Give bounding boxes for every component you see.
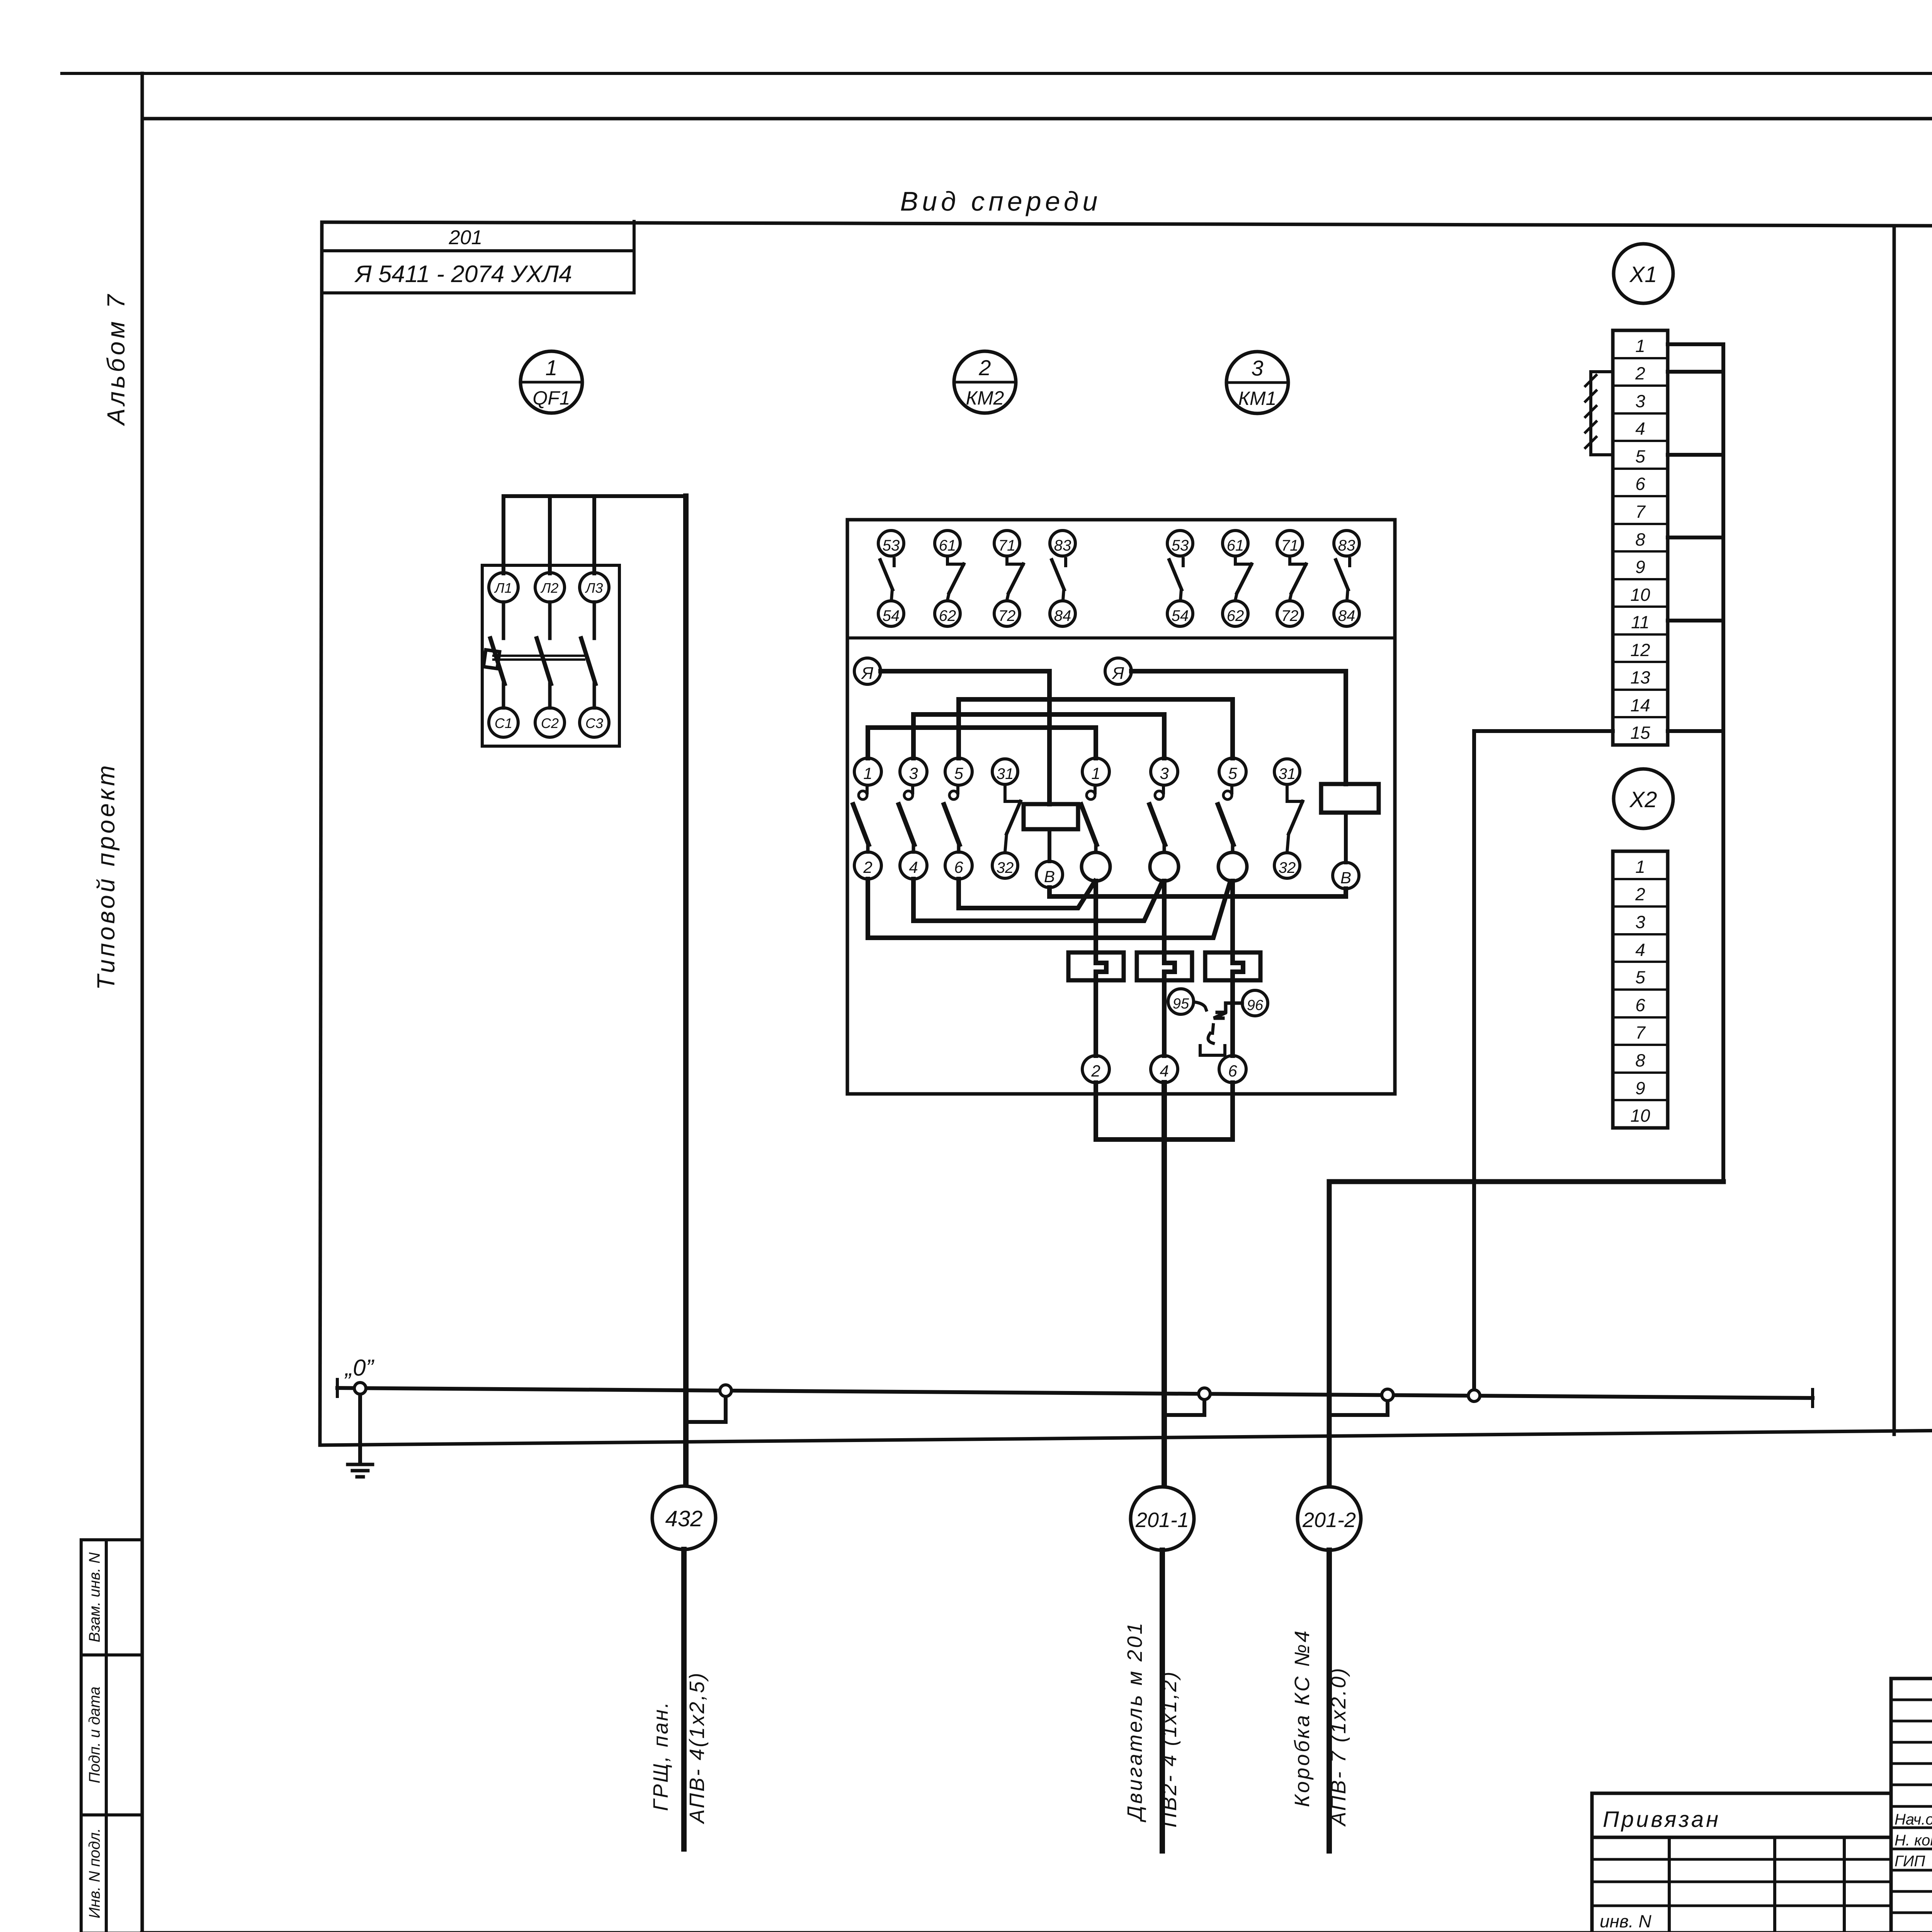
cable wire 432 vertical xyxy=(683,496,689,1486)
svg-text:7: 7 xyxy=(1635,502,1646,522)
svg-text:61: 61 xyxy=(1227,537,1244,554)
signature table xyxy=(1889,1679,1893,1932)
svg-text:Л2: Л2 xyxy=(541,580,559,596)
terminal C1 xyxy=(489,708,518,737)
svg-text:В: В xyxy=(1340,869,1351,887)
margin stamp box Inv N podl xyxy=(81,1815,142,1932)
svg-text:31: 31 xyxy=(997,765,1014,782)
X2 row line xyxy=(1613,878,1668,880)
svg-text:КМ1: КМ1 xyxy=(1238,388,1277,409)
X1 jumper bracket rows 2-5 (to dismantle) xyxy=(1591,372,1613,455)
marker circle X1 xyxy=(1614,244,1673,303)
coil terminal B KM1 xyxy=(1333,862,1359,889)
svg-text:6: 6 xyxy=(1635,474,1645,494)
svg-text:АПВ- 4(1х2,5): АПВ- 4(1х2,5) xyxy=(685,1671,709,1824)
KM2 output terminal 2 xyxy=(854,852,881,879)
aux contact 61-62 xyxy=(1223,531,1252,626)
pole fixed contact hook xyxy=(911,785,914,793)
jumper hatch tick xyxy=(1585,391,1596,401)
binding table row xyxy=(1592,1905,1891,1907)
pole terminal 5 xyxy=(1219,758,1246,785)
svg-text:Я: Я xyxy=(1112,664,1124,683)
svg-text:62: 62 xyxy=(1227,607,1244,624)
svg-text:12: 12 xyxy=(1630,640,1650,660)
svg-text:Н. контр.: Н. контр. xyxy=(1895,1832,1932,1849)
svg-text:Вид спереди: Вид спереди xyxy=(900,186,1102,216)
svg-text:2: 2 xyxy=(978,355,991,380)
svg-text:3: 3 xyxy=(909,764,918,782)
pole terminal 3 xyxy=(900,758,927,785)
cable circle 201-2 xyxy=(1298,1487,1361,1550)
X1 row line xyxy=(1613,468,1668,470)
X2 row line xyxy=(1613,1044,1668,1046)
pole terminal 1 xyxy=(1082,758,1109,785)
marker circle 1 QF1 xyxy=(520,351,582,413)
svg-text:1: 1 xyxy=(545,355,557,380)
binding table row xyxy=(1592,1858,1891,1861)
svg-text:201-2: 201-2 xyxy=(1302,1509,1356,1532)
svg-text:ГИП: ГИП xyxy=(1895,1853,1925,1870)
wire phase feed horizontal xyxy=(503,494,686,498)
X1 row line xyxy=(1613,633,1668,636)
X1 stub row15 xyxy=(1668,729,1723,733)
svg-text:Двигатель м 201: Двигатель м 201 xyxy=(1123,1621,1146,1823)
zero bus xyxy=(337,1388,1813,1398)
svg-text:8: 8 xyxy=(1635,529,1645,549)
wire Ya KM1 to coil xyxy=(1131,671,1346,784)
thermal contact 95 xyxy=(1168,989,1194,1014)
pole fixed contact hook xyxy=(1162,785,1165,793)
svg-text:72: 72 xyxy=(1281,607,1299,624)
X1 stub row11 xyxy=(1668,619,1723,622)
marker circle 3 KM1 xyxy=(1226,352,1288,413)
pole terminal 3 xyxy=(1151,758,1178,785)
svg-text:432: 432 xyxy=(665,1506,703,1531)
svg-text:84: 84 xyxy=(1338,607,1355,624)
svg-text:10: 10 xyxy=(1630,1105,1650,1126)
svg-text:62: 62 xyxy=(939,607,956,624)
cable circle 432 xyxy=(652,1486,716,1549)
bus node X1-15 xyxy=(1468,1390,1480,1401)
svg-text:3: 3 xyxy=(1635,391,1645,411)
output terminal 2 xyxy=(1082,1056,1109,1083)
marker circle 2 KM2 xyxy=(954,351,1016,413)
svg-text:13: 13 xyxy=(1630,667,1650,687)
svg-text:„0”: „0” xyxy=(344,1355,374,1381)
svg-text:QF1: QF1 xyxy=(532,387,570,409)
svg-text:3: 3 xyxy=(1251,356,1263,380)
X1 row line xyxy=(1613,550,1668,553)
svg-text:С3: С3 xyxy=(585,715,603,731)
svg-text:15: 15 xyxy=(1630,723,1650,743)
coil box KM1 xyxy=(1321,784,1379,813)
breaker handle xyxy=(483,650,500,669)
jumper hatch tick xyxy=(1585,406,1596,417)
aux contact 83-84 xyxy=(1050,531,1075,626)
wire to L3 xyxy=(592,496,596,573)
KM1 junction node 3 xyxy=(1218,852,1247,881)
sheet top edge xyxy=(62,72,1932,75)
X2 row line xyxy=(1613,1016,1668,1019)
svg-text:71: 71 xyxy=(1281,537,1299,554)
panel enclosure box xyxy=(322,222,1932,227)
svg-text:83: 83 xyxy=(1338,537,1355,554)
svg-text:96: 96 xyxy=(1247,997,1264,1014)
svg-text:КМ2: КМ2 xyxy=(966,387,1004,409)
svg-text:3: 3 xyxy=(1160,764,1168,782)
X2 row line xyxy=(1613,988,1668,991)
X1 row line xyxy=(1613,440,1668,442)
cable wire 201-1 vertical xyxy=(1162,1083,1167,1486)
KM2 output terminal 6 xyxy=(945,852,972,879)
cable 432 wire down xyxy=(681,1549,687,1849)
svg-text:Альбом 7: Альбом 7 xyxy=(102,291,130,426)
svg-text:Инв. N подл.: Инв. N подл. xyxy=(86,1828,103,1918)
pole fixed contact hook xyxy=(866,785,869,793)
svg-text:Взам. инв. N: Взам. инв. N xyxy=(86,1552,103,1642)
svg-text:2: 2 xyxy=(863,858,872,876)
binding table row xyxy=(1592,1881,1891,1883)
marker circle X2 xyxy=(1614,769,1673,828)
svg-text:X2: X2 xyxy=(1629,787,1657,812)
svg-text:83: 83 xyxy=(1054,537,1071,554)
svg-text:X1: X1 xyxy=(1629,262,1657,287)
pole terminal 5 xyxy=(945,758,972,785)
svg-text:11: 11 xyxy=(1631,612,1650,632)
wire tie terminals 2-6 xyxy=(1096,1083,1233,1139)
frame border xyxy=(141,73,144,1932)
svg-text:Я: Я xyxy=(861,664,874,683)
svg-text:Типовой проект: Типовой проект xyxy=(92,763,120,990)
aux contact 53-54 xyxy=(1167,531,1193,626)
terminal strip X2 xyxy=(1613,851,1668,1128)
thermal trip contact symbol xyxy=(1194,1002,1206,1010)
margin stamp box Vzam inv N xyxy=(81,1540,142,1655)
coil box KM2 xyxy=(1024,804,1078,829)
aux contact 83-84 xyxy=(1334,531,1359,626)
wire through thermal element xyxy=(1164,881,1175,1056)
svg-text:Л3: Л3 xyxy=(585,580,603,596)
jumper hatch tick xyxy=(1585,437,1596,448)
cable circle 201-1 xyxy=(1131,1487,1194,1550)
wire through thermal element xyxy=(1096,881,1106,1056)
X1 stub row5 xyxy=(1668,453,1723,457)
panel designation box 201 xyxy=(633,221,636,293)
wire X1-15 to zero bus xyxy=(1474,731,1613,1390)
coil terminal B KM2 xyxy=(1036,861,1063,888)
pole moving blade xyxy=(1150,804,1165,845)
X1 row line xyxy=(1613,384,1668,387)
wire bus poles 1-1 xyxy=(868,728,1096,758)
svg-text:Я 5411 - 2074 УХЛ4: Я 5411 - 2074 УХЛ4 xyxy=(354,261,572,287)
X1 harness trunk xyxy=(1668,344,1723,1182)
svg-text:54: 54 xyxy=(1172,607,1189,624)
binding table column xyxy=(1843,1837,1846,1932)
jumper hatch tick xyxy=(1585,375,1596,386)
X1 row line xyxy=(1613,412,1668,415)
svg-text:5: 5 xyxy=(954,764,963,782)
thermal element xyxy=(1205,952,1260,980)
pole moving blade xyxy=(944,804,959,845)
breaker trip bar xyxy=(493,655,584,657)
svg-text:С1: С1 xyxy=(495,715,512,731)
svg-text:1: 1 xyxy=(1635,857,1645,877)
svg-text:14: 14 xyxy=(1630,695,1650,715)
output terminal 4 xyxy=(1151,1056,1178,1083)
aux contact 31-32 xyxy=(992,759,1018,784)
svg-text:95: 95 xyxy=(1173,996,1189,1012)
svg-text:32: 32 xyxy=(1279,859,1296,876)
svg-text:10: 10 xyxy=(1630,585,1650,605)
jumper hatch tick xyxy=(1585,422,1596,432)
aux contact 71-72 xyxy=(1277,531,1306,626)
svg-text:31: 31 xyxy=(1279,765,1296,782)
svg-text:1: 1 xyxy=(1091,764,1100,782)
aux contact 71-72 xyxy=(994,531,1023,626)
wire to L2 xyxy=(548,496,552,573)
svg-text:201-1: 201-1 xyxy=(1135,1509,1189,1532)
X1 row line xyxy=(1613,523,1668,525)
terminal C3 xyxy=(580,708,609,737)
wire KM2-2 to KM1 node3 xyxy=(868,879,1230,938)
KM1 junction node 1 xyxy=(1082,852,1110,881)
binding table Privyazan xyxy=(1592,1793,1891,1932)
bus node ground xyxy=(354,1383,366,1394)
contactor box divider xyxy=(847,636,1395,639)
svg-text:6: 6 xyxy=(1228,1062,1237,1080)
output terminal 6 xyxy=(1219,1056,1246,1083)
wire to L1 xyxy=(502,496,505,573)
pole moving blade xyxy=(853,804,869,845)
circuit breaker QF1 box xyxy=(482,565,619,746)
svg-text:53: 53 xyxy=(883,537,900,554)
bus node 201-1 with jog xyxy=(1164,1394,1204,1415)
X1 stub row8 xyxy=(1668,536,1723,539)
aux contact 31-32 xyxy=(1274,759,1300,784)
binding table column xyxy=(1668,1837,1671,1932)
pole fixed contact hook xyxy=(1094,785,1097,793)
X1 row line xyxy=(1613,716,1668,718)
svg-text:Привязан: Привязан xyxy=(1603,1807,1721,1832)
pole moving blade xyxy=(1218,804,1233,845)
X1 stub row2 xyxy=(1668,370,1723,374)
ground symbol xyxy=(348,1463,372,1466)
svg-text:72: 72 xyxy=(998,607,1016,624)
pole moving blade xyxy=(1081,804,1097,845)
svg-text:Нач.отд.: Нач.отд. xyxy=(1895,1811,1932,1828)
wire through thermal element xyxy=(1233,881,1243,1056)
terminal L2 xyxy=(535,573,565,602)
svg-text:54: 54 xyxy=(883,607,900,624)
ground wire xyxy=(358,1388,362,1463)
svg-text:201: 201 xyxy=(449,226,483,249)
contactor block box xyxy=(847,520,1395,1094)
bus left end tick xyxy=(336,1379,339,1396)
svg-text:84: 84 xyxy=(1054,607,1071,624)
terminal L1 xyxy=(489,573,518,602)
margin stamp box Podp i data xyxy=(81,1655,142,1815)
wire Ya KM2 to coil xyxy=(881,671,1049,804)
KM2 blade stubs xyxy=(866,845,870,852)
wire KM2-4 to KM1 node2 xyxy=(913,879,1162,921)
svg-text:8: 8 xyxy=(1635,1050,1645,1070)
breaker pole contact xyxy=(502,602,505,638)
svg-text:ПВ2- 4 (1х1,2): ПВ2- 4 (1х1,2) xyxy=(1158,1670,1181,1827)
svg-text:4: 4 xyxy=(1160,1062,1168,1080)
binding table column xyxy=(1773,1837,1776,1932)
X2 row line xyxy=(1613,961,1668,963)
coil terminal Ya KM2 xyxy=(854,658,881,684)
svg-text:4: 4 xyxy=(1635,418,1645,439)
svg-text:61: 61 xyxy=(939,537,956,554)
X2 row line xyxy=(1613,1099,1668,1101)
pole terminal 1 xyxy=(854,758,881,785)
cable 201-2 wire down xyxy=(1327,1550,1332,1851)
terminal C2 xyxy=(535,708,565,737)
svg-text:Подп. и дата: Подп. и дата xyxy=(86,1687,103,1783)
svg-text:1: 1 xyxy=(863,764,872,782)
X2 row line xyxy=(1613,933,1668,935)
svg-text:Коробка КС №4: Коробка КС №4 xyxy=(1291,1629,1314,1807)
svg-text:6: 6 xyxy=(954,858,963,876)
thermal element xyxy=(1068,952,1124,980)
wire B-B common xyxy=(1049,888,1346,896)
svg-text:С2: С2 xyxy=(541,715,559,731)
svg-text:В: В xyxy=(1044,867,1055,886)
svg-text:6: 6 xyxy=(1635,995,1645,1015)
svg-text:4: 4 xyxy=(1635,940,1645,960)
X1 row line xyxy=(1613,605,1668,608)
bus node 201-2 with jog xyxy=(1329,1395,1388,1415)
svg-text:5: 5 xyxy=(1635,967,1645,987)
KM2 output terminal 4 xyxy=(900,852,927,879)
coil terminal Ya KM1 xyxy=(1105,658,1131,684)
X1 row line xyxy=(1613,689,1668,691)
terminal L3 xyxy=(580,573,609,602)
thermal contact 96 xyxy=(1242,990,1268,1016)
svg-text:ГРЩ, пан.: ГРЩ, пан. xyxy=(649,1701,672,1811)
thermal element xyxy=(1137,952,1192,980)
svg-text:2: 2 xyxy=(1091,1062,1100,1080)
svg-text:5: 5 xyxy=(1228,764,1237,782)
bus node 432 with jog xyxy=(686,1391,726,1422)
wire KM2-6 to KM1 node1 xyxy=(959,879,1095,908)
svg-text:АПВ- 7 (1х2.0): АПВ- 7 (1х2.0) xyxy=(1327,1667,1350,1827)
bus right end tick xyxy=(1811,1389,1814,1406)
svg-text:71: 71 xyxy=(998,537,1016,554)
cable 201-1 wire down xyxy=(1160,1550,1165,1851)
pole moving blade xyxy=(899,804,914,845)
KM1 junction node 2 xyxy=(1150,852,1179,881)
wire bus poles 3-3 xyxy=(913,714,1164,758)
panel divider between front view and door xyxy=(1893,228,1896,1434)
cable wire 201-2 vertical xyxy=(1329,1182,1723,1486)
breaker pole contact xyxy=(593,602,596,638)
breaker pole contact xyxy=(548,602,552,638)
svg-text:3: 3 xyxy=(1635,912,1645,932)
pole fixed contact hook xyxy=(956,785,959,793)
X2 row line xyxy=(1613,1071,1668,1074)
wire bus poles 5-5 xyxy=(959,699,1233,758)
svg-text:5: 5 xyxy=(1635,446,1645,466)
svg-text:53: 53 xyxy=(1172,537,1189,554)
terminal strip X1 xyxy=(1613,330,1668,745)
aux contact 61-62 xyxy=(935,531,964,626)
X2 row line xyxy=(1613,905,1668,908)
svg-text:9: 9 xyxy=(1635,1078,1645,1098)
svg-text:инв. N: инв. N xyxy=(1600,1911,1651,1931)
X1 row line xyxy=(1613,357,1668,359)
svg-text:9: 9 xyxy=(1635,557,1645,577)
X1 row line xyxy=(1613,661,1668,663)
svg-text:32: 32 xyxy=(997,859,1014,876)
X1 row line xyxy=(1613,578,1668,580)
svg-text:2: 2 xyxy=(1635,363,1645,383)
svg-text:1: 1 xyxy=(1635,336,1645,356)
svg-text:7: 7 xyxy=(1635,1022,1646,1043)
X1 row line xyxy=(1613,495,1668,497)
svg-text:4: 4 xyxy=(909,858,918,876)
svg-text:2: 2 xyxy=(1635,884,1645,904)
aux contact 53-54 xyxy=(878,531,904,626)
pole fixed contact hook xyxy=(1230,785,1233,793)
svg-text:Л1: Л1 xyxy=(494,580,512,596)
